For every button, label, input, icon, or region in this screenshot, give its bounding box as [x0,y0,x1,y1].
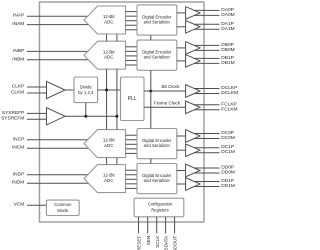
bus ADC A to encoder (5 wires) [126,12,138,30]
wire output DD0P [194,167,219,169]
svg-text:INCP: INCP [13,136,24,142]
wire pin SDOUT [174,217,176,234]
svg-text:SDOUT: SDOUT [173,236,178,250]
svg-text:CLKM: CLKM [11,90,24,96]
clock input buffer [47,81,66,98]
svg-text:and Serializer: and Serializer [144,178,171,183]
common mode block [46,200,79,215]
PLL block [121,77,145,121]
wire output DA1M [194,28,219,30]
svg-text:ADC: ADC [104,178,114,183]
wire input CLKM [27,92,47,94]
wire encoder A to buffer A1 [177,26,186,28]
wire output DA1P [194,23,219,25]
digital encoder and serializer D [137,164,177,194]
svg-text:CLKP: CLKP [12,84,25,90]
wire input CLKP [27,86,47,88]
svg-text:VCM: VCM [14,202,25,208]
outer chip boundary box [40,2,205,222]
svg-text:RESET: RESET [137,236,142,250]
bus ADC D to encoder (5 wires) [126,170,138,188]
wire input INBM [27,59,89,61]
svg-text:INBM: INBM [12,56,24,62]
svg-text:Configuration: Configuration [148,202,173,207]
svg-text:by 1,2,4: by 1,2,4 [78,90,94,95]
LVDS output buffer B0 [186,42,200,55]
svg-text:and Serializer: and Serializer [144,19,171,24]
wire frame clock [144,106,186,108]
wire input SYSREFM [27,118,47,120]
wire input INAP [27,15,89,17]
wire input INCP [27,139,89,141]
LVDS output buffer B1 [186,55,200,68]
svg-text:DB1M: DB1M [221,60,234,66]
svg-text:Common: Common [54,202,72,207]
wire pin SEN [147,217,149,234]
svg-text:Bit Clock: Bit Clock [161,84,180,89]
wire sampling clock rail 1 [106,34,108,165]
svg-text:and Serializer: and Serializer [144,143,171,148]
bus ADC C to encoder (5 wires) [126,135,138,153]
LVDS output buffer C1 [186,144,200,157]
wire pin SCLK [156,217,158,234]
wire encoder D to buffer D1 [177,183,186,185]
ADC C (12-Bit ADC) [84,130,126,158]
svg-text:FCLKM: FCLKM [221,106,237,112]
wire encoder B to buffer B0 [177,47,186,49]
junction bit clock to serializer rail [149,90,152,93]
wire output DC0P [194,133,219,135]
wire output DB0P [194,44,219,46]
wire output DA0M [194,14,219,16]
wire input INCM [27,147,89,149]
junction SYSREF rail 2 [115,115,118,118]
svg-text:Frame Clock: Frame Clock [154,101,181,106]
svg-text:DB0M: DB0M [221,47,234,53]
svg-text:12-Bit: 12-Bit [103,138,116,143]
wire divider output to PLL [98,89,121,91]
svg-text:ADC: ADC [104,55,114,60]
svg-text:DD0M: DD0M [221,170,235,176]
wire output DC1M [194,152,219,154]
LVDS output buffer D1 [186,178,200,191]
wire input VCM [27,204,46,206]
wire output DD1M [194,186,219,188]
wire SYSREF to rail 2 [65,115,117,117]
SYSREF input buffer [47,108,66,125]
digital encoder and serializer B [137,40,177,70]
junction divider clock to rail 1 [105,89,108,92]
svg-text:ADC: ADC [104,20,114,25]
bus ADC B to encoder (5 wires) [126,47,138,65]
svg-text:SDATA: SDATA [164,235,169,250]
wire output FCLKM [194,109,219,111]
svg-text:DA1M: DA1M [221,26,234,32]
wire output DCLKM [194,93,219,95]
wire output DC0M [194,138,219,140]
divider block (Divide by 1,2,4) [74,77,98,103]
svg-text:DC0M: DC0M [221,135,235,141]
LVDS output buffer C0 [186,130,200,143]
wire input INDM [27,182,89,184]
digital encoder and serializer C [137,129,177,159]
svg-text:and Serializer: and Serializer [144,55,171,60]
ADC A (12-Bit ADC) [84,6,126,34]
svg-text:SCLK: SCLK [155,235,160,248]
bit clock output buffer [186,85,200,98]
svg-text:DC1M: DC1M [221,149,235,155]
LVDS output buffer A0 [186,7,200,20]
wire divider bottom to SYSREF line [85,103,87,117]
svg-text:ADC: ADC [104,143,114,148]
svg-text:INCM: INCM [12,145,24,151]
wire pin SDATA [165,217,167,234]
wire input INDP [27,174,89,176]
ADC B (12-Bit ADC) [84,41,126,69]
svg-text:INDM: INDM [12,180,24,186]
LVDS output buffer A1 [186,21,200,34]
svg-text:DCLKM: DCLKM [221,90,238,96]
svg-text:INBP: INBP [13,48,24,54]
svg-text:PLL: PLL [128,96,137,102]
svg-text:INAM: INAM [12,21,24,27]
svg-text:SEN: SEN [146,236,151,245]
svg-text:DA0M: DA0M [221,12,234,18]
wire serializer clock rail [150,35,152,163]
svg-text:SYSREFM: SYSREFM [1,116,24,122]
svg-text:Mode: Mode [57,208,68,213]
svg-text:12-Bit: 12-Bit [103,49,116,54]
wire buffer to divider [65,89,74,91]
svg-text:12-Bit: 12-Bit [103,173,116,178]
frame clock output buffer [186,101,200,114]
svg-text:Registers: Registers [151,208,168,213]
wire output DC1P [194,147,219,149]
digital encoder and serializer A [137,5,177,35]
svg-text:DD1M: DD1M [221,183,235,189]
wire encoder B to buffer B1 [177,60,186,62]
wire encoder C to buffer C0 [177,135,186,137]
wire output DD1P [194,181,219,183]
wire encoder C to buffer C1 [177,149,186,151]
wire output FCLKP [194,104,219,106]
wire input SYSREFP [27,112,47,114]
wire encoder D to buffer D0 [177,170,186,172]
svg-text:INDP: INDP [13,171,24,177]
LVDS output buffer D0 [186,164,200,177]
wire input INBP [27,50,89,52]
wire output DB0M [194,49,219,51]
svg-text:SYSREFP: SYSREFP [2,110,24,116]
wire output DD0M [194,172,219,174]
wire SYSREF rail 2 [116,34,118,165]
wire output DCLKP [194,88,219,90]
wire encoder A to buffer A0 [177,12,186,14]
svg-text:INAP: INAP [13,13,24,19]
wire output DA0P [194,9,219,11]
configuration registers block [134,198,184,217]
svg-text:12-Bit: 12-Bit [103,14,116,19]
wire output DB1M [194,62,219,64]
wire pin RESET [138,217,140,234]
ADC D (12-Bit ADC) [84,165,126,193]
wire output DB1P [194,57,219,59]
junction SYSREF divider branch [84,115,87,118]
wire input INAM [27,24,89,26]
wire bit clock [144,90,186,92]
